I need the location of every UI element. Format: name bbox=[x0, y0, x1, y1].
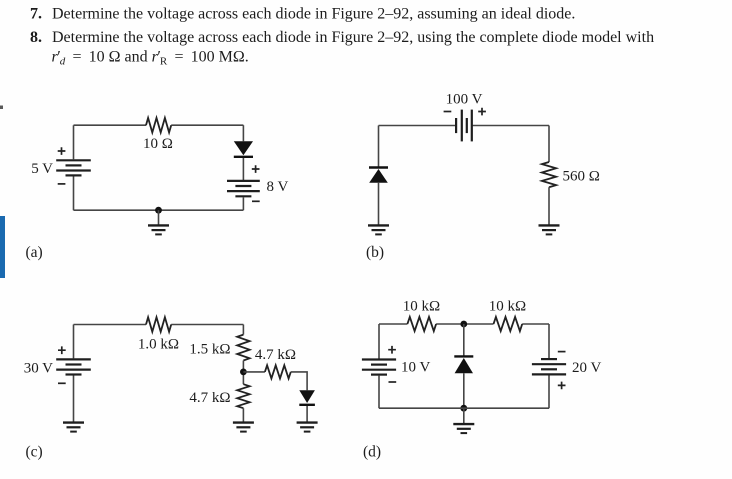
minus sign battery 20V bbox=[558, 351, 566, 353]
svg-text:1.5 kΩ: 1.5 kΩ bbox=[189, 342, 230, 358]
minus sign battery 30V bbox=[58, 382, 66, 384]
wire c top bbox=[74, 324, 244, 326]
wire d bottom bbox=[379, 407, 549, 409]
plus sign battery 20V bbox=[558, 382, 566, 390]
wire a right bottom bbox=[242, 197, 244, 210]
wire c to diode bbox=[291, 372, 307, 390]
ground (b left) bbox=[368, 225, 389, 234]
battery 5V (a) bbox=[56, 160, 91, 175]
plus sign battery 30V bbox=[58, 346, 66, 354]
minus sign battery 8V bbox=[252, 200, 260, 202]
minus sign battery 10V bbox=[389, 381, 397, 383]
wire b left lower bbox=[378, 183, 380, 225]
ground stub (a) bbox=[158, 210, 160, 225]
ground (c battery) bbox=[63, 423, 84, 432]
battery 10V (d) bbox=[362, 360, 396, 375]
wire c mid bbox=[242, 361, 244, 385]
plus sign battery 10V bbox=[388, 346, 396, 354]
wire c resistor to ground bbox=[242, 408, 244, 422]
battery 100V (b) horizontal bbox=[456, 110, 472, 142]
wire b right lower bbox=[548, 187, 550, 224]
svg-text:5 V: 5 V bbox=[31, 161, 53, 177]
svg-text:Determine the voltage across e: Determine the voltage across each diode … bbox=[52, 6, 575, 23]
wire a bottom bbox=[74, 209, 244, 211]
svg-text:Determine the voltage across e: Determine the voltage across each diode … bbox=[52, 29, 654, 46]
resistor 1.5 kohm (c) bbox=[237, 335, 249, 361]
plus sign battery 8V bbox=[252, 165, 260, 173]
wire a top bbox=[74, 124, 244, 126]
diode D (b) pointing up bbox=[369, 166, 388, 168]
svg-text:(a): (a) bbox=[26, 244, 43, 261]
problem text line 2 bbox=[30, 29, 654, 46]
resistor 10 kohm left (d) bbox=[407, 317, 436, 331]
problem text line 3 bbox=[52, 49, 249, 68]
left margin blue bar bbox=[0, 216, 5, 278]
wire d left bbox=[378, 324, 380, 408]
svg-text:8.: 8. bbox=[30, 29, 42, 46]
wire c right upper bbox=[242, 325, 244, 335]
svg-text:30 V: 30 V bbox=[24, 360, 53, 376]
ground (a) bbox=[148, 225, 169, 234]
wire b left bbox=[378, 126, 380, 168]
resistor 560 ohm (b) bbox=[542, 162, 556, 187]
ground (c middle) bbox=[233, 423, 254, 432]
wire d right bbox=[548, 324, 550, 408]
battery 20V (d) bbox=[532, 359, 566, 374]
wire c diode to ground bbox=[306, 406, 308, 422]
wire a right mid bbox=[242, 158, 244, 180]
battery 30V (c) bbox=[56, 359, 91, 374]
resistor R 10ohm (a) bbox=[146, 118, 171, 133]
problem text line 1 bbox=[30, 6, 575, 23]
diode D (d) pointing up bbox=[454, 355, 473, 357]
ground (b right) bbox=[539, 225, 560, 234]
svg-text:100 V: 100 V bbox=[446, 92, 483, 108]
svg-text:10 Ω: 10 Ω bbox=[143, 136, 173, 152]
wire c junction to horizontal resistor bbox=[243, 371, 265, 373]
resistor 4.7 kohm vertical (c) bbox=[237, 384, 249, 408]
svg-text:(d): (d) bbox=[363, 444, 381, 461]
svg-text:10 kΩ: 10 kΩ bbox=[403, 299, 440, 315]
left margin gray dash bbox=[0, 106, 3, 110]
ground (c diode) bbox=[297, 423, 318, 432]
svg-text:8 V: 8 V bbox=[267, 179, 289, 195]
svg-text:4.7 kΩ: 4.7 kΩ bbox=[255, 347, 296, 363]
wire a left bbox=[73, 125, 75, 210]
svg-text:10 V: 10 V bbox=[401, 360, 430, 376]
wire d middle lower bbox=[463, 373, 465, 408]
wire d middle upper bbox=[463, 324, 465, 356]
minus sign battery 100V bbox=[444, 111, 452, 113]
svg-text:r′d = 10 Ω and r′R = 100 M: r′d = 10 Ω and r′R = 100 MΩ. bbox=[52, 49, 249, 68]
plus sign battery a bbox=[58, 147, 66, 155]
svg-text:(c): (c) bbox=[26, 444, 43, 461]
wire b right upper bbox=[548, 126, 550, 163]
wire b top bbox=[379, 125, 550, 127]
svg-text:1.0 kΩ: 1.0 kΩ bbox=[138, 337, 179, 353]
svg-text:20 V: 20 V bbox=[572, 360, 601, 376]
diode D (a) pointing down bbox=[234, 141, 253, 155]
ground (d) bbox=[453, 424, 474, 433]
diode D (c) pointing down bbox=[299, 390, 315, 403]
battery 8V (a) bbox=[227, 181, 260, 196]
plus sign battery 100V bbox=[478, 108, 486, 116]
resistor 1.0 kohm (c) bbox=[146, 317, 171, 332]
ground stub (d) bbox=[463, 408, 465, 423]
svg-text:(b): (b) bbox=[366, 244, 384, 261]
minus sign battery a bbox=[58, 183, 66, 185]
junction node (a) bbox=[155, 207, 162, 214]
svg-text:4.7 kΩ: 4.7 kΩ bbox=[189, 390, 230, 406]
junction node (d bottom) bbox=[460, 405, 467, 412]
svg-text:10 kΩ: 10 kΩ bbox=[489, 299, 526, 315]
wire a right top bbox=[242, 125, 244, 141]
junction node (d top) bbox=[460, 321, 467, 328]
wire d top bbox=[379, 323, 549, 325]
junction node (c) bbox=[240, 369, 247, 376]
svg-text:560 Ω: 560 Ω bbox=[563, 169, 600, 185]
resistor 4.7 kohm horizontal (c) bbox=[265, 365, 291, 378]
resistor 10 kohm right (d) bbox=[494, 317, 523, 331]
svg-text:7.: 7. bbox=[30, 6, 42, 23]
wire c left bbox=[73, 325, 75, 422]
